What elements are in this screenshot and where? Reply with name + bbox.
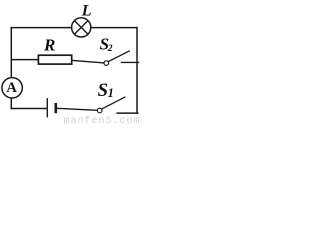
wire left vertical upper (top corner to ammeter) bbox=[10, 27, 12, 78]
ammeter A bbox=[2, 78, 22, 98]
resistor R bbox=[38, 55, 71, 64]
switch S1 lever bbox=[102, 97, 126, 109]
lamp L symbol bbox=[72, 18, 91, 37]
switch S1 contact circle bbox=[97, 108, 102, 113]
switch S2 contact circle bbox=[104, 61, 109, 66]
wire right vertical bbox=[136, 27, 138, 114]
svg-text:2: 2 bbox=[107, 44, 113, 54]
svg-text:R: R bbox=[43, 35, 55, 54]
svg-text:manfen5.com: manfen5.com bbox=[64, 115, 141, 124]
wire battery to switch S1 bbox=[57, 108, 98, 110]
switch S2 lever bbox=[108, 51, 129, 62]
svg-text:1: 1 bbox=[108, 86, 114, 100]
wire top right segment bbox=[91, 27, 138, 29]
wire S1 right stub bbox=[116, 112, 138, 114]
battery cell bbox=[47, 98, 56, 117]
wire top left segment bbox=[11, 27, 72, 29]
wire S2 right stub bbox=[121, 61, 139, 63]
svg-text:S: S bbox=[98, 81, 108, 101]
svg-text:A: A bbox=[6, 80, 17, 96]
wire bottom left segment bbox=[11, 108, 47, 110]
wire middle branch left segment bbox=[11, 59, 39, 61]
wire left vertical lower (ammeter to bottom corner) bbox=[10, 98, 12, 109]
svg-text:L: L bbox=[81, 3, 92, 20]
wire resistor to switch S2 bbox=[72, 60, 104, 63]
